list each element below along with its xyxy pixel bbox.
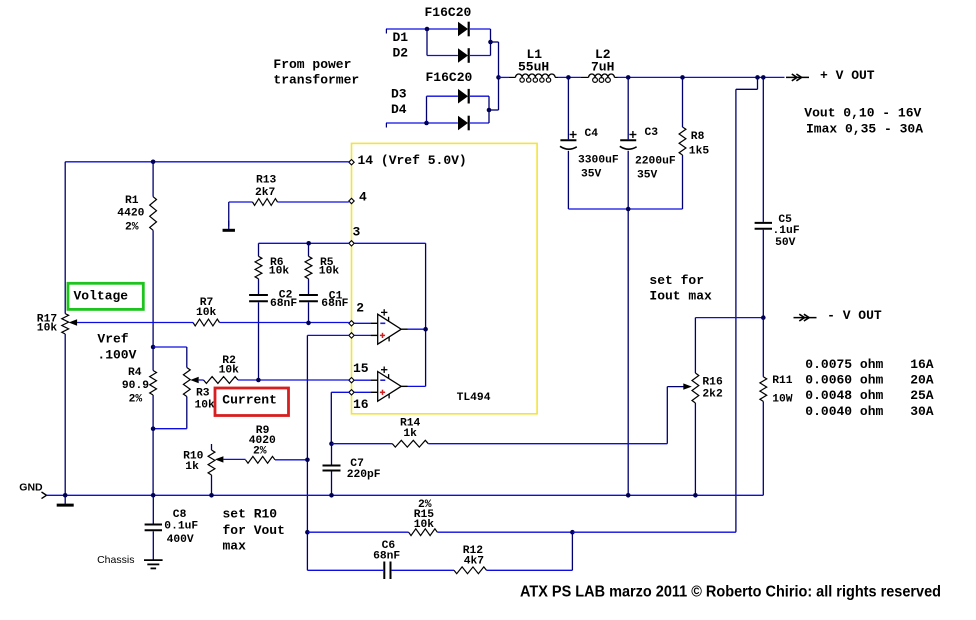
wire Vref to R3 top bbox=[153, 346, 187, 348]
-V OUT connector arrow bbox=[794, 314, 817, 321]
wire R15 left lead bbox=[307, 531, 408, 533]
svg-text:10k: 10k bbox=[319, 266, 340, 278]
svg-text:TL494: TL494 bbox=[457, 392, 491, 404]
wire C8 bottom lead bbox=[152, 531, 154, 559]
wire R8 top lead bbox=[682, 77, 684, 127]
svg-text:R11: R11 bbox=[772, 375, 793, 387]
svg-text:D3: D3 bbox=[391, 86, 407, 101]
TL494 box bbox=[352, 143, 538, 413]
pin 2 bbox=[349, 300, 364, 326]
wire pin14 horizontal bbox=[65, 161, 349, 163]
R3 wiper arrow bbox=[190, 377, 203, 383]
svg-text:16: 16 bbox=[353, 397, 369, 412]
node -V OUT junction bbox=[761, 315, 766, 320]
diode D1 bbox=[458, 22, 491, 37]
node R8 top bbox=[680, 75, 685, 80]
wire R4 top lead bbox=[152, 347, 154, 371]
svg-text:1k: 1k bbox=[185, 461, 199, 473]
svg-text:for Vout: for Vout bbox=[223, 523, 285, 538]
resistor R5 bbox=[305, 256, 339, 279]
resistor R12 bbox=[454, 545, 487, 574]
chassis ground symbol bbox=[144, 560, 163, 568]
resistor R7 bbox=[193, 297, 220, 326]
svg-text:0.1uF: 0.1uF bbox=[164, 520, 198, 532]
wire R6 to C2 bbox=[258, 279, 260, 294]
potentiometer R16 bbox=[692, 373, 723, 403]
svg-text:Current: Current bbox=[222, 393, 277, 408]
svg-text:Chassis: Chassis bbox=[97, 554, 134, 566]
wire C7 bottom lead bbox=[331, 472, 333, 496]
shunt table row 20A bbox=[805, 373, 934, 388]
ground R13 bbox=[223, 221, 235, 231]
junction filter bottom / down wire bbox=[626, 207, 631, 212]
note set R10 for Vout max bbox=[223, 506, 285, 553]
svg-text:50V: 50V bbox=[775, 237, 796, 249]
junction GND R16 bbox=[693, 493, 698, 498]
wire R4 bottom lead bbox=[152, 395, 154, 495]
wire R3 top lead bbox=[186, 347, 188, 368]
svg-text:14 (Vref 5.0V): 14 (Vref 5.0V) bbox=[358, 153, 467, 168]
svg-text:2: 2 bbox=[356, 300, 364, 315]
svg-text:set for: set for bbox=[649, 273, 704, 288]
svg-text:transformer: transformer bbox=[273, 72, 359, 87]
resistor R14 bbox=[392, 418, 428, 447]
wire C8 top lead bbox=[152, 495, 154, 523]
wire -V OUT horizontal bbox=[695, 317, 763, 319]
svg-text:220pF: 220pF bbox=[347, 469, 381, 481]
svg-text:Voltage: Voltage bbox=[74, 289, 129, 304]
svg-text:90.9: 90.9 bbox=[122, 380, 149, 392]
wire R7 to pin 2 bbox=[220, 322, 349, 324]
node R5 top bbox=[306, 241, 311, 246]
resistor R8 bbox=[679, 127, 709, 157]
svg-text:F16C20: F16C20 bbox=[426, 70, 473, 85]
R16 wiper arrow bbox=[667, 383, 692, 389]
node R14/C7 junction bbox=[329, 441, 334, 446]
note Vout range bbox=[804, 106, 921, 121]
wire R3 bottom to R4 bbox=[153, 428, 187, 430]
wire R10 bottom lead bbox=[211, 475, 213, 495]
+V OUT connector arrow bbox=[786, 74, 809, 81]
junction GND left rail bbox=[63, 493, 68, 498]
svg-text:max: max bbox=[223, 538, 247, 553]
svg-text:20A: 20A bbox=[910, 373, 934, 388]
resistor R6 bbox=[255, 256, 289, 279]
wire R11 bottom lead bbox=[762, 401, 764, 495]
potentiometer R17 bbox=[37, 313, 69, 334]
R9 left to R10 wiper bbox=[215, 456, 246, 462]
wire L2 to +V OUT bbox=[614, 76, 784, 78]
note From power transformer bbox=[273, 57, 359, 88]
wire pin16 external bbox=[331, 391, 349, 393]
svg-text:10k: 10k bbox=[269, 266, 290, 278]
wire L1 to L2 bbox=[555, 76, 589, 78]
svg-text:0.0075 ohm: 0.0075 ohm bbox=[805, 357, 883, 372]
wire R3 bottom lead bbox=[186, 397, 188, 429]
junction D3/D4 split bbox=[424, 121, 429, 126]
svg-text:set R10: set R10 bbox=[223, 506, 278, 521]
svg-text:From power: From power bbox=[273, 57, 351, 72]
op-amp U1A bbox=[355, 309, 408, 344]
svg-text:3: 3 bbox=[353, 225, 361, 240]
node rectifier output bbox=[496, 75, 501, 80]
node R9 on feedback vertical bbox=[305, 458, 310, 463]
shunt table row 16A bbox=[805, 357, 934, 372]
pin 15 bbox=[349, 361, 369, 383]
label Voltage box bbox=[68, 283, 143, 309]
wire R16 wiper vertical bbox=[666, 387, 668, 444]
wire stub left bbox=[736, 88, 758, 90]
wire R12 right lead bbox=[487, 569, 573, 571]
pin 16 bbox=[349, 390, 369, 413]
svg-text:2k2: 2k2 bbox=[702, 389, 723, 401]
svg-text:68nF: 68nF bbox=[270, 298, 297, 310]
svg-text:R16: R16 bbox=[702, 376, 723, 388]
label F16C20 lower bbox=[426, 70, 473, 85]
svg-text:2%: 2% bbox=[129, 394, 143, 406]
svg-text:400V: 400V bbox=[167, 534, 194, 546]
wire C3 bottom long vertical to GND rail bbox=[627, 151, 629, 496]
label D3 bbox=[391, 86, 407, 101]
wire D1 input from transformer bbox=[386, 29, 458, 34]
svg-text:Imax 0,35 - 30A: Imax 0,35 - 30A bbox=[806, 122, 923, 137]
junction D1/D2 split bbox=[425, 27, 430, 32]
wire R13 ground stub bbox=[228, 202, 230, 227]
capacitor C1 bbox=[299, 291, 349, 311]
wire C6/R12 right vertical bbox=[571, 532, 573, 570]
wire C5 top lead bbox=[762, 77, 764, 222]
svg-text:2200uF: 2200uF bbox=[635, 155, 676, 167]
label D1 bbox=[393, 30, 409, 45]
wire D3 branch vertical bbox=[426, 96, 428, 123]
label GND bbox=[19, 481, 43, 493]
capacitor C2 bbox=[249, 289, 297, 310]
title copyright bbox=[520, 584, 941, 601]
wire R8 bottom lead bbox=[682, 155, 684, 209]
wire lower cathode node to rectifier node bbox=[489, 77, 499, 110]
svg-text:- V OUT: - V OUT bbox=[827, 308, 882, 323]
wire D3 horizontal bbox=[427, 95, 458, 97]
svg-text:D2: D2 bbox=[393, 46, 409, 61]
R17 wiper arrow bbox=[69, 319, 193, 325]
wire D2 horizontal bbox=[427, 55, 458, 57]
wire D1/D2 cathode join vertical bbox=[490, 29, 492, 56]
diode D4 bbox=[458, 116, 489, 131]
node R15/C6 right junction bbox=[570, 530, 575, 535]
wire cathode node to rectifier node bbox=[491, 42, 499, 77]
wire D2 branch vertical bbox=[426, 29, 428, 56]
pin 14 bbox=[349, 153, 467, 168]
svg-text:D4: D4 bbox=[391, 102, 407, 117]
svg-text:16A: 16A bbox=[910, 357, 934, 372]
wire D3/D4 cathode join vertical bbox=[488, 96, 490, 123]
node Vref junction bbox=[151, 345, 156, 350]
wire filter bank bottom rail bbox=[568, 208, 682, 210]
resistor R15 bbox=[409, 499, 438, 536]
svg-text:0.0060 ohm: 0.0060 ohm bbox=[805, 373, 883, 388]
wire long vertical x=736 bbox=[735, 89, 737, 532]
potentiometer R3 bbox=[183, 368, 215, 412]
wire left rail vertical upper bbox=[64, 162, 66, 314]
svg-text:R1: R1 bbox=[125, 195, 139, 207]
wire D4 input from transformer bbox=[386, 123, 458, 128]
label F16C20 upper bbox=[425, 5, 472, 20]
pin 4 bbox=[349, 190, 367, 205]
svg-text:1k: 1k bbox=[403, 428, 417, 440]
wire C5 bottom lead bbox=[762, 230, 764, 318]
node C1 bottom on pin2 wire bbox=[306, 321, 311, 326]
wire internal vertical bbox=[425, 243, 427, 386]
label Vref bbox=[97, 332, 128, 347]
junction GND C7 bbox=[329, 493, 334, 498]
resistor R11 bbox=[760, 375, 793, 406]
node branch to -V network bbox=[755, 75, 760, 80]
node C3 top bbox=[626, 75, 631, 80]
wire rectifier node to L1 bbox=[499, 76, 516, 78]
svg-text:10k: 10k bbox=[37, 323, 58, 335]
junction GND R10 bbox=[209, 493, 214, 498]
wire R1 bottom lead bbox=[152, 230, 154, 347]
resistor R1 bbox=[117, 195, 156, 233]
svg-text:10k: 10k bbox=[414, 519, 435, 531]
svg-text:+ V OUT: + V OUT bbox=[820, 68, 875, 83]
svg-text:30A: 30A bbox=[910, 404, 934, 419]
node C5 top bbox=[761, 75, 766, 80]
svg-text:Vref: Vref bbox=[97, 332, 128, 347]
node C4 top bbox=[566, 75, 571, 80]
capacitor C6 bbox=[373, 540, 400, 579]
capacitor C5 bbox=[755, 214, 800, 249]
wire R2 to pin 15 bbox=[238, 379, 349, 381]
wire U1B output bbox=[408, 385, 426, 387]
wire R13 to pin 4 bbox=[278, 201, 349, 203]
node U1A output junction bbox=[423, 327, 428, 332]
svg-text:D1: D1 bbox=[393, 30, 409, 45]
svg-text:2%: 2% bbox=[125, 222, 139, 234]
svg-text:Vout 0,10 - 16V: Vout 0,10 - 16V bbox=[804, 106, 921, 121]
svg-text:10W: 10W bbox=[772, 393, 793, 405]
wire R11 top lead bbox=[762, 318, 764, 377]
label Chassis bbox=[97, 554, 134, 566]
label + V OUT bbox=[820, 68, 875, 83]
svg-text:F16C20: F16C20 bbox=[425, 5, 472, 20]
junction D1/D2 cathodes bbox=[488, 40, 493, 45]
svg-text:C4: C4 bbox=[585, 128, 599, 140]
svg-text:10k: 10k bbox=[219, 365, 240, 377]
wire R9 right lead bbox=[275, 459, 307, 461]
wire riser corner bbox=[735, 531, 737, 533]
wire pin3 internal bbox=[355, 242, 426, 244]
svg-text:35V: 35V bbox=[581, 168, 602, 180]
wire +V stub down bbox=[757, 77, 759, 89]
svg-text:ATX PS LAB marzo 2011 © Rober: ATX PS LAB marzo 2011 © Roberto Chirio: … bbox=[520, 584, 941, 601]
svg-text:68nF: 68nF bbox=[373, 550, 400, 562]
label - V OUT bbox=[827, 308, 882, 323]
wire R1 top lead bbox=[152, 162, 154, 197]
inductor L1 bbox=[516, 47, 556, 82]
node R4 bottom junction bbox=[151, 426, 156, 431]
wire feedback vertical x=307 bbox=[306, 335, 308, 532]
svg-text:.1uF: .1uF bbox=[773, 225, 800, 237]
junction GND R4/C8 bbox=[151, 493, 156, 498]
wire R5 top lead bbox=[308, 243, 310, 256]
wire U1A output bbox=[408, 328, 426, 330]
svg-text:R13: R13 bbox=[256, 174, 277, 186]
svg-text:55uH: 55uH bbox=[518, 59, 549, 74]
node C2 bottom on pin15 wire bbox=[256, 378, 261, 383]
svg-text:2%: 2% bbox=[253, 445, 267, 457]
svg-text:4: 4 bbox=[359, 190, 367, 205]
svg-text:0.0048 ohm: 0.0048 ohm bbox=[805, 388, 883, 403]
shunt table row 25A bbox=[805, 388, 934, 403]
resistor R13 bbox=[253, 174, 278, 205]
junction GND C3 branch bbox=[626, 493, 631, 498]
GND rail connector chevron bbox=[42, 492, 47, 499]
svg-text:4420: 4420 bbox=[117, 207, 144, 219]
svg-text:15: 15 bbox=[353, 361, 369, 376]
svg-text:2k7: 2k7 bbox=[255, 187, 276, 199]
svg-text:R8: R8 bbox=[691, 131, 705, 143]
svg-text:10k: 10k bbox=[195, 400, 216, 412]
wire R6 top lead bbox=[258, 243, 260, 256]
wire R16 top lead bbox=[694, 318, 696, 373]
junction D3/D4 cathodes bbox=[487, 108, 492, 113]
svg-text:4k7: 4k7 bbox=[464, 555, 485, 567]
wire pin3 external bbox=[259, 242, 349, 244]
resistor R9 bbox=[246, 425, 277, 463]
wire pin16 vertical bbox=[330, 392, 332, 443]
resistor R2 bbox=[204, 355, 240, 383]
node R1 top bbox=[151, 160, 156, 165]
op-amp U1B bbox=[355, 367, 408, 402]
svg-text:25A: 25A bbox=[910, 388, 934, 403]
svg-text:10k: 10k bbox=[196, 307, 217, 319]
svg-text:Iout max: Iout max bbox=[649, 289, 712, 304]
label .100V bbox=[97, 348, 136, 363]
label TL494 bbox=[457, 392, 491, 404]
wire C6 left lead bbox=[307, 569, 383, 571]
wire R14 to R16 wiper riser bbox=[428, 443, 667, 445]
node R15 left junction bbox=[305, 530, 310, 535]
svg-text:68nF: 68nF bbox=[321, 298, 348, 310]
wire R15 to +V riser bbox=[572, 531, 736, 533]
svg-text:1k5: 1k5 bbox=[689, 145, 710, 157]
label Current box bbox=[215, 388, 289, 416]
shunt table row 30A bbox=[805, 404, 934, 419]
wire R16 bottom lead bbox=[694, 403, 696, 495]
wire R14 left lead bbox=[332, 443, 393, 445]
capacitor C7 bbox=[323, 458, 381, 481]
svg-text:3300uF: 3300uF bbox=[578, 154, 619, 166]
svg-text:GND: GND bbox=[19, 481, 43, 493]
svg-text:35V: 35V bbox=[637, 169, 658, 181]
wire C6 to R12 bbox=[392, 569, 454, 571]
wire R13 left lead bbox=[229, 201, 253, 203]
diode D2 bbox=[458, 48, 491, 63]
capacitor C3 bbox=[620, 127, 676, 182]
wire left rail vertical lower bbox=[64, 334, 66, 495]
resistor R4 bbox=[122, 367, 157, 406]
wire C3 top lead bbox=[627, 77, 629, 139]
label D2 bbox=[393, 46, 409, 61]
wire C7 top lead bbox=[331, 444, 333, 465]
svg-text:.100V: .100V bbox=[97, 348, 136, 363]
capacitor C8 bbox=[145, 509, 199, 546]
svg-text:R4: R4 bbox=[128, 367, 142, 379]
svg-text:7uH: 7uH bbox=[591, 59, 614, 74]
wire R15 right lead bbox=[437, 531, 572, 533]
pin 3 bbox=[349, 225, 361, 247]
svg-text:C3: C3 bbox=[645, 127, 659, 139]
potentiometer R10 bbox=[183, 444, 215, 475]
svg-text:R3: R3 bbox=[196, 387, 210, 399]
wire GND rail bbox=[47, 494, 764, 496]
wire pin2 feedback external bbox=[307, 334, 348, 336]
ground symbol left bbox=[57, 495, 74, 505]
wire C1 bottom to pin2 line bbox=[308, 302, 310, 323]
svg-text:0.0040 ohm: 0.0040 ohm bbox=[805, 404, 883, 419]
wire R5 to C1 bbox=[308, 279, 310, 294]
wire C4 top lead bbox=[567, 77, 569, 139]
wire C4 bottom lead bbox=[567, 151, 569, 209]
diode D3 bbox=[458, 89, 489, 104]
label D4 bbox=[391, 102, 407, 117]
svg-text:C8: C8 bbox=[173, 509, 187, 521]
pin 2 feedback bbox=[349, 333, 354, 338]
wire C2 bottom to pin15 line bbox=[258, 302, 260, 380]
wire C6 branch left vertical bbox=[306, 532, 308, 570]
inductor L2 bbox=[589, 47, 615, 82]
note set for Iout max bbox=[649, 273, 712, 304]
capacitor C4 bbox=[560, 128, 619, 181]
note Imax range bbox=[806, 122, 923, 137]
